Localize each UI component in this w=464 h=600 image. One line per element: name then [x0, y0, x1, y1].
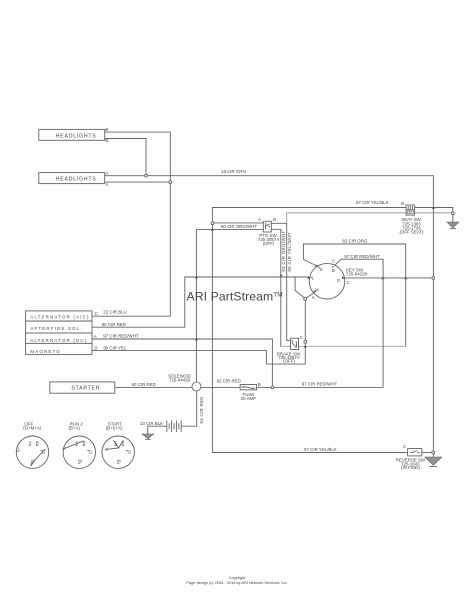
svg-text:B: B: [105, 127, 108, 132]
svg-text:Page design (c) 2004 - 2016 by: Page design (c) 2004 - 2016 by ARI Netwo…: [186, 580, 287, 585]
svg-text:C: C: [300, 335, 303, 340]
svg-text:B: B: [122, 441, 125, 446]
svg-text:STARTER: STARTER: [71, 386, 100, 392]
svg-text:G: G: [128, 449, 132, 454]
svg-text:82 CIR ORG: 82 CIR ORG: [342, 239, 367, 244]
svg-text:B: B: [105, 138, 108, 143]
svg-text:97 CIR RED/WHT: 97 CIR RED/WHT: [103, 334, 139, 339]
svg-text:22 CIR BLU: 22 CIR BLU: [103, 309, 126, 314]
svg-text:G: G: [89, 449, 93, 454]
svg-text:80 CIR RED: 80 CIR RED: [102, 322, 126, 327]
svg-text:B: B: [401, 201, 404, 206]
svg-text:(B+A): (B+A): [69, 425, 81, 430]
svg-text:84 CIR RED: 84 CIR RED: [199, 396, 204, 423]
svg-text:38 CIR YEL: 38 CIR YEL: [103, 346, 127, 351]
svg-text:C: C: [403, 444, 406, 449]
svg-text:(G+M+A): (G+M+A): [23, 425, 42, 430]
svg-text:AFTERFIRE SOL.: AFTERFIRE SOL.: [30, 326, 82, 331]
svg-text:G: G: [42, 449, 46, 454]
svg-text:A: A: [94, 334, 97, 339]
svg-text:A: A: [258, 217, 261, 222]
svg-text:C: C: [95, 311, 98, 316]
svg-text:MAGNETO: MAGNETO: [30, 349, 61, 354]
svg-text:HEADLIGHTS: HEADLIGHTS: [56, 177, 97, 183]
svg-text:C: C: [332, 259, 335, 264]
svg-text:60 CIR ORG/WHT: 60 CIR ORG/WHT: [221, 224, 257, 229]
svg-text:ALTERNATOR (A/C): ALTERNATOR (A/C): [30, 314, 89, 319]
svg-text:M: M: [117, 459, 121, 464]
svg-text:A: A: [312, 295, 315, 300]
svg-text:20 AMP: 20 AMP: [241, 396, 256, 401]
svg-text:B: B: [36, 441, 39, 446]
svg-text:(IN FWD): (IN FWD): [401, 465, 420, 470]
svg-text:HEADLIGHTS: HEADLIGHTS: [56, 133, 97, 139]
svg-text:97 CIR RED/WHT: 97 CIR RED/WHT: [302, 382, 338, 387]
svg-text:A: A: [105, 182, 108, 187]
svg-text:B: B: [83, 441, 86, 446]
svg-text:ALTERNATOR (DC): ALTERNATOR (DC): [30, 338, 87, 343]
svg-text:(B+S+A): (B+S+A): [106, 425, 123, 430]
svg-text:60 CIR RED: 60 CIR RED: [132, 382, 156, 387]
svg-text:725-04439: 725-04439: [169, 378, 191, 383]
svg-text:13 CIR BLK: 13 CIR BLK: [140, 421, 163, 426]
svg-text:G: G: [337, 278, 341, 283]
svg-text:A: A: [105, 171, 108, 176]
svg-text:S: S: [320, 267, 323, 272]
svg-text:93 CIR ORG/WHT: 93 CIR ORG/WHT: [281, 230, 286, 271]
svg-text:92 CIR RED: 92 CIR RED: [217, 379, 241, 384]
svg-text:57 CIR YEL/BLK: 57 CIR YEL/BLK: [304, 447, 337, 452]
svg-text:(OFF SEAT): (OFF SEAT): [399, 230, 424, 235]
svg-text:B: B: [258, 382, 261, 387]
svg-text:ARI PartStreamTM: ARI PartStreamTM: [187, 290, 283, 304]
svg-text:(OFF): (OFF): [283, 359, 295, 364]
svg-text:S: S: [114, 441, 117, 446]
svg-text:B: B: [332, 268, 335, 273]
svg-text:M: M: [315, 287, 319, 292]
svg-text:(OFF): (OFF): [263, 241, 275, 246]
svg-text:S: S: [75, 441, 78, 446]
svg-text:M: M: [31, 459, 35, 464]
svg-text:C: C: [347, 280, 350, 285]
svg-text:18 CIR GRN: 18 CIR GRN: [221, 169, 246, 174]
svg-text:M: M: [78, 459, 82, 464]
svg-text:S: S: [29, 441, 32, 446]
svg-text:57 CIR YEL/BLK: 57 CIR YEL/BLK: [356, 200, 389, 205]
svg-text:725-04228: 725-04228: [346, 272, 368, 277]
svg-text:95 CIR YEL/WHT: 95 CIR YEL/WHT: [287, 232, 292, 272]
svg-text:D: D: [94, 345, 97, 350]
svg-text:B: B: [273, 217, 276, 222]
svg-text:97 CIR RED/WHT: 97 CIR RED/WHT: [344, 254, 380, 259]
